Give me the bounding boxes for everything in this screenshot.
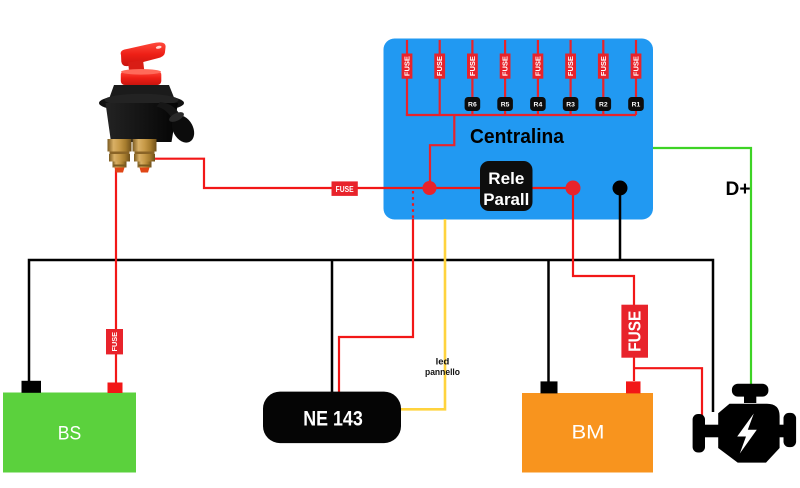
switch key neck [128,60,145,74]
svg-text:R5: R5 [501,102,510,109]
terminal BM negative [541,381,558,393]
wire: black from Centralina node to bus [619,188,622,260]
switch key handle [121,42,166,66]
wire: red bus drop to node [430,115,454,188]
switch flange [99,94,184,112]
fuse box Centralina (enclosure) [384,39,654,220]
relay tag R2 [596,97,612,111]
module NE 143 [263,392,401,444]
svg-text:R4: R4 [534,102,543,109]
switch rubber cap [157,102,179,118]
wire: yellow led pannello [401,219,445,409]
switch upper black cone [110,85,175,98]
switch red collar [121,71,162,85]
wire: red tap to NE 143 [339,219,413,392]
wire: red dotted tap below node [412,191,414,218]
terminal BM positive [626,381,641,393]
svg-text:FUSE: FUSE [110,332,119,352]
engine body [718,404,779,463]
wire: red switch right terminal to Centralina node [142,159,573,188]
relay tag R6 [465,97,481,111]
svg-text:R1: R1 [632,102,641,109]
wire: black drop to BM negative [547,260,550,382]
engine top cap [732,384,769,397]
wire: green D+ from Centralina to engine [653,148,751,386]
svg-text:R6: R6 [468,102,477,109]
relay tag R4 [530,97,546,111]
svg-text:pannello: pannello [425,367,460,378]
switch lower body [106,103,179,142]
svg-text:R2: R2 [599,102,608,109]
wire: red switch left terminal to BS positive [115,163,117,383]
svg-text:Parall: Parall [483,191,529,209]
svg-text:Rele: Rele [488,170,524,188]
engine right mount [778,425,785,438]
svg-text:BM: BM [572,422,605,444]
relay tag R5 [497,97,513,111]
svg-text:Centralina: Centralina [470,126,565,148]
switch terminal left [108,139,132,173]
terminal BS negative [22,381,42,393]
engine lightning bolt [737,414,757,454]
switch terminal right [133,139,157,173]
svg-text:R3: R3 [566,102,575,109]
svg-text:NE 143: NE 143 [303,408,363,431]
svg-text:BS: BS [58,424,82,445]
svg-text:FUSE: FUSE [625,311,645,352]
wire: red branch to engine starter [634,368,702,417]
wire: red from node 2 to BM positive and engine [573,188,634,381]
engine M1 (starter motor) [693,384,797,463]
fuse F1..F8 boxes in Centralina [402,54,642,79]
wire: black drop to NE 143 [331,260,334,392]
battery disconnect switch S1 [99,42,199,172]
battery BS [3,393,136,473]
fuse label on BS positive wire [106,329,123,354]
wire: black ground bus [29,260,713,412]
fuse label on BM positive wire [621,305,648,358]
engine left mount [705,425,720,438]
wire: red fuse feeders inside Centralina [406,40,636,188]
svg-text:FUSE: FUSE [403,56,412,76]
wire: red fuse bus [406,114,636,116]
relay U1 Rele Parall [480,161,533,211]
svg-text:D+: D+ [726,178,751,200]
battery BM [522,393,653,473]
relay tag R1 [628,97,644,111]
svg-text:FUSE: FUSE [336,185,355,194]
fuse label on switch wire [332,181,358,196]
terminal BS positive [108,383,123,394]
relay tag R3 [563,97,579,111]
node: black junction [613,181,628,196]
node: red junction 2 [566,181,581,196]
node: red junction 1 [423,181,437,195]
